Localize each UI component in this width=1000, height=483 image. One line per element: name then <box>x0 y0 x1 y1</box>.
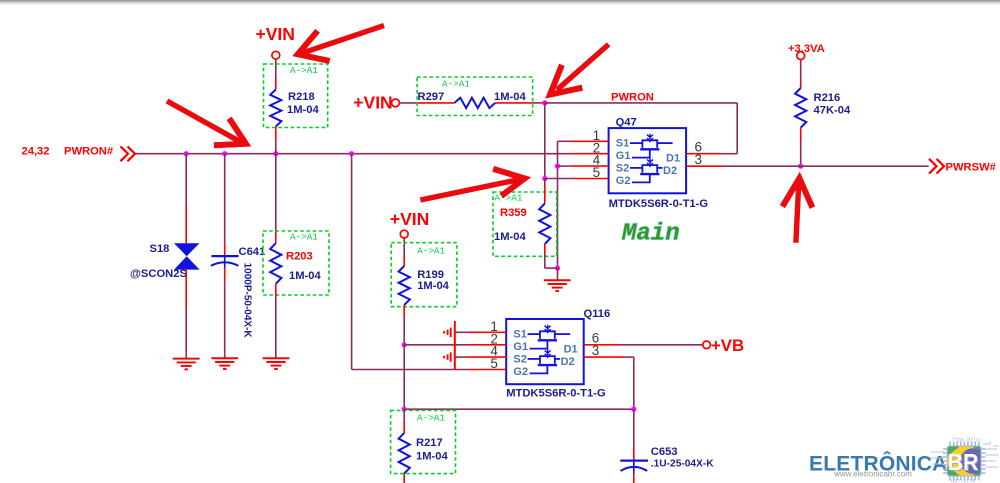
svg-text:1000P-50-04X-K: 1000P-50-04X-K <box>242 263 253 339</box>
TVS diode S18 <box>174 243 200 256</box>
wire +VIN to R218 <box>275 59 277 78</box>
node R199/Q116 G1 <box>402 342 407 347</box>
resistor R297 1M-04 <box>417 77 532 116</box>
svg-text:24,32: 24,32 <box>22 146 50 158</box>
node bus/R218-R203 <box>273 151 278 156</box>
capacitor C641 1000P-50-04X-K <box>211 255 238 257</box>
svg-text:S1: S1 <box>513 329 526 341</box>
wire R199 to G1 node <box>403 305 405 317</box>
svg-text:G2: G2 <box>616 175 631 187</box>
annotation arrow D (at Q47 G2 node) <box>420 179 520 200</box>
svg-text:+VIN: +VIN <box>390 209 429 229</box>
svg-text:D2: D2 <box>561 356 575 368</box>
svg-text:Q116: Q116 <box>584 308 611 320</box>
svg-text:MTDK5S6R-0-T1-G: MTDK5S6R-0-T1-G <box>609 198 709 210</box>
svg-text:www.eletronicabr.com: www.eletronicabr.com <box>833 469 912 478</box>
off-page connector PWRSW# <box>929 159 944 174</box>
wire PWRSW# <box>724 165 929 167</box>
wire bus to C641 <box>224 154 226 244</box>
svg-text:47K-04: 47K-04 <box>814 104 851 116</box>
node R359 bottom <box>555 266 560 271</box>
wire S18 to ground <box>185 270 187 308</box>
svg-text:C641: C641 <box>239 246 266 258</box>
wire R199 node down to R217 node <box>403 345 405 409</box>
wire Q47 S1-S2 tie <box>558 140 571 142</box>
svg-text:G1: G1 <box>616 150 631 162</box>
annotation arrow C (at PWRON node) <box>557 44 609 89</box>
resistor R218 1M-04 <box>264 64 328 128</box>
node bus/S18 <box>184 151 189 156</box>
svg-text:C653: C653 <box>651 446 678 458</box>
Q47 FET1 <box>630 142 642 144</box>
wire +VIN to R297 <box>399 102 417 104</box>
svg-text:A->A1: A->A1 <box>290 65 318 76</box>
wire node to C653 <box>633 409 635 447</box>
power symbol +VB <box>703 341 711 349</box>
svg-text:G2: G2 <box>513 366 528 378</box>
svg-text:PWRON: PWRON <box>611 91 654 103</box>
wire Q116 D2 to C653 <box>623 356 634 358</box>
svg-text:PWRON#: PWRON# <box>64 146 114 158</box>
wire C653 bottom <box>633 473 635 483</box>
wire bus to Q116 G2 <box>351 154 353 370</box>
svg-text:3: 3 <box>695 152 703 167</box>
resistor R359 1M-04 <box>493 192 557 256</box>
svg-text:R203: R203 <box>286 251 313 263</box>
svg-text:R297: R297 <box>418 91 445 103</box>
svg-text:Q47: Q47 <box>616 117 637 129</box>
node R297/PWRON <box>542 100 547 105</box>
svg-text:S2: S2 <box>513 353 526 365</box>
node Q47 S2 <box>555 164 560 169</box>
wire R218 to bus <box>275 127 277 141</box>
svg-text:S1: S1 <box>616 138 629 150</box>
svg-text:1M-04: 1M-04 <box>494 231 526 243</box>
svg-text:1M-04: 1M-04 <box>287 104 319 116</box>
node Q47 G2/R359 <box>542 176 547 181</box>
wire node to C653 node <box>404 408 634 410</box>
wire bus to R203 <box>275 154 277 231</box>
wire C641 to ground <box>224 269 226 282</box>
svg-text:D2: D2 <box>663 165 677 177</box>
node R217/wire to C653 <box>402 407 407 412</box>
svg-text:R359: R359 <box>500 207 527 219</box>
svg-text:+VB: +VB <box>711 336 744 355</box>
svg-text:G1: G1 <box>513 341 528 353</box>
resistor R203 1M-04 <box>263 231 329 295</box>
svg-text:R218: R218 <box>288 91 315 103</box>
svg-text:D1: D1 <box>666 152 680 164</box>
annotation arrow A (at +VIN/R218) <box>303 26 384 53</box>
svg-text:R216: R216 <box>814 92 841 104</box>
wire R203 to ground <box>275 284 277 296</box>
svg-text:A->A1: A->A1 <box>417 245 445 256</box>
svg-text:5: 5 <box>490 356 498 371</box>
node R216/PWRSW <box>798 164 803 169</box>
wire R217 bottom <box>403 474 405 483</box>
resistor R216 47K-04 <box>795 88 806 128</box>
wire PWRON# bus <box>135 153 570 155</box>
wire +3.3VA to R216 <box>800 60 802 84</box>
svg-text:+3.3VA: +3.3VA <box>788 43 825 55</box>
wire +VIN to R199 <box>403 238 405 255</box>
svg-text:D1: D1 <box>564 343 578 355</box>
node bus/C641 <box>222 151 227 156</box>
wire G1 <box>404 344 467 346</box>
svg-text:MTDK5S6R-0-T1-G: MTDK5S6R-0-T1-G <box>506 387 606 399</box>
ground (Q47/R359) <box>544 279 571 281</box>
node bus/Q116-G2 branch <box>349 151 354 156</box>
ground (C641) <box>211 357 238 359</box>
node C653 <box>631 407 636 412</box>
svg-text:1M-04: 1M-04 <box>416 451 448 463</box>
Q116 FET1 <box>528 333 540 335</box>
svg-text:3: 3 <box>592 343 600 358</box>
svg-text:+VIN: +VIN <box>353 93 392 113</box>
svg-text:.1U-25-04X-K: .1U-25-04X-K <box>651 458 714 469</box>
annotation arrow B (at PWRON# bus) <box>167 101 242 143</box>
wire Q47 G2 branch (from PWRON node) <box>544 103 546 179</box>
wire to ground <box>557 268 559 280</box>
ground (S18) <box>173 358 200 360</box>
svg-text:1M-04: 1M-04 <box>289 270 321 282</box>
svg-text:A->A1: A->A1 <box>442 78 470 89</box>
rotated ground at Q116 S1/S2 <box>454 321 456 370</box>
Q47 FET2 <box>630 167 642 169</box>
svg-text:R217: R217 <box>416 437 443 449</box>
svg-text:1M-04: 1M-04 <box>494 91 526 103</box>
wire R359 to ground node <box>544 244 546 255</box>
svg-text:1M-04: 1M-04 <box>417 280 449 292</box>
svg-text:S18: S18 <box>150 243 170 255</box>
Q116 FET2 <box>528 358 540 360</box>
svg-text:A->A1: A->A1 <box>290 232 318 243</box>
svg-text:@SCON2S: @SCON2S <box>130 268 187 280</box>
wire bus to S18 <box>185 154 187 205</box>
svg-text:PWRSW#: PWRSW# <box>946 162 997 174</box>
ground (R203) <box>263 357 290 359</box>
svg-text:A->A1: A->A1 <box>417 413 445 424</box>
annotation arrow E (at PWRSW node) <box>796 182 799 243</box>
svg-text:S2: S2 <box>616 162 629 174</box>
wire Q116 D1 to +VB <box>621 344 703 346</box>
svg-text:BR: BR <box>948 449 979 475</box>
capacitor C653 .1U-25-04X-K <box>620 459 648 461</box>
svg-text:5: 5 <box>593 165 601 180</box>
svg-text:Main: Main <box>621 221 680 248</box>
svg-text:+VIN: +VIN <box>256 24 295 44</box>
resistor R217 1M-04 <box>391 411 456 474</box>
wire R216 to PWRSW node <box>800 128 802 142</box>
wire R297 to PWRON node <box>495 102 532 104</box>
resistor R199 1M-04 <box>391 243 457 307</box>
